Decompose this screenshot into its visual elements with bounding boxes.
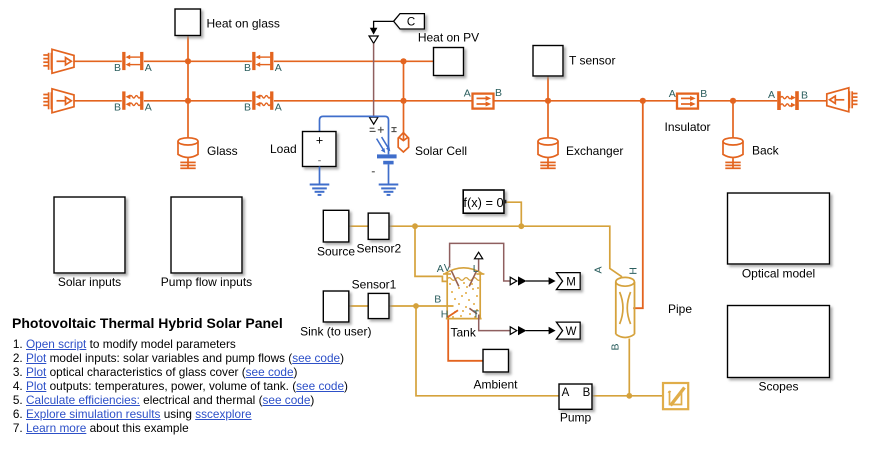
svg-text:T sensor: T sensor <box>569 54 615 68</box>
block Load <box>303 132 337 167</box>
svg-text:Heat on PV: Heat on PV <box>418 31 479 45</box>
svg-text:Pump: Pump <box>560 411 592 425</box>
physical signal wire converter to solar cell <box>373 43 375 116</box>
wire row2 source to radiation1 <box>74 100 122 102</box>
block Sensor1 <box>368 293 389 318</box>
signal wire to W tag <box>526 330 550 332</box>
junction row2 glass <box>185 98 191 104</box>
wire electrical top (solar cell to load) <box>320 116 389 154</box>
svg-text:B: B <box>434 294 441 306</box>
wire junction down to Pump A <box>416 306 559 396</box>
tank rim ticks <box>443 273 451 275</box>
svg-text:L: L <box>473 263 479 275</box>
block Heat on glass <box>175 9 201 36</box>
svg-text:H: H <box>628 267 640 275</box>
data logger block <box>663 383 688 409</box>
physical signal wire tank V to M converter <box>450 243 510 281</box>
wire pipe B down to junction <box>628 339 630 396</box>
svg-text:+: + <box>316 134 323 148</box>
svg-text:Exchanger: Exchanger <box>566 144 623 158</box>
junction row2 back <box>730 98 736 104</box>
tank particles <box>449 282 479 318</box>
svg-text:H: H <box>441 309 449 321</box>
block f(x)=0 solver <box>463 190 504 213</box>
wire Heat on glass vertical to Glass <box>187 36 189 138</box>
conduction block K2 row1 right <box>252 52 273 70</box>
svg-text:M: M <box>566 276 576 288</box>
block Heat on PV <box>434 48 464 76</box>
subsystem Optical model <box>728 193 830 264</box>
conduction block K1 row1 left <box>122 52 143 70</box>
block Sink (to user) <box>323 291 349 322</box>
thermal mass Exchanger <box>538 138 558 169</box>
thermal mass Glass <box>178 138 198 169</box>
svg-text:Tank: Tank <box>451 326 477 340</box>
block Sensor2 <box>368 213 389 239</box>
svg-text:A: A <box>275 62 282 74</box>
block Source <box>323 210 349 242</box>
subsystem Solar inputs <box>54 197 125 273</box>
junction yellow bus fx0 <box>518 223 524 229</box>
junction yellow bus tank A <box>412 223 418 229</box>
junction row2 solarcell <box>400 98 406 104</box>
wire bus to Pipe H port <box>633 101 643 308</box>
wire bus junction down to tank A <box>415 226 447 281</box>
wire Source to Sensor2 <box>349 225 368 227</box>
arrowhead into converter <box>370 28 378 35</box>
model description text <box>12 312 372 435</box>
svg-text:A: A <box>145 62 152 74</box>
solar cell port glyphs <box>370 127 397 172</box>
wire Sensor2 to pipe A (main yellow bus) <box>389 226 622 277</box>
svg-text:W: W <box>566 326 577 338</box>
junction row2 exchanger <box>545 98 551 104</box>
svg-text:Sensor2: Sensor2 <box>356 242 401 256</box>
svg-text:Source: Source <box>317 245 355 259</box>
wire row2 radiation2 to convection <box>274 100 473 102</box>
junction row2 pipe <box>640 98 646 104</box>
svg-text:A: A <box>437 263 444 275</box>
junction row1 glass <box>185 58 191 64</box>
svg-text:B: B <box>244 62 251 74</box>
block T sensor <box>533 46 563 77</box>
svg-text:Insulator: Insulator <box>664 120 710 134</box>
svg-text:Load: Load <box>270 142 297 156</box>
solar cell thermal port <box>398 133 408 152</box>
svg-text:B: B <box>801 90 808 102</box>
tank funnel <box>451 271 458 287</box>
svg-text:A: A <box>145 102 152 114</box>
heat source S3 (right, mirrored) <box>827 88 858 112</box>
svg-text:f(x) = 0: f(x) = 0 <box>463 195 503 210</box>
block Pump <box>559 384 592 409</box>
svg-text:Back: Back <box>752 144 780 158</box>
wire row1 source to conduction1 <box>74 60 122 62</box>
signal wire to M tag <box>526 280 550 282</box>
Simulink-PS converter input triangle <box>369 36 378 43</box>
thermal mass Back <box>723 138 743 169</box>
tank water line <box>447 278 481 281</box>
svg-text:Solar inputs: Solar inputs <box>58 275 121 289</box>
svg-text:Scopes: Scopes <box>758 380 798 394</box>
svg-text:Glass: Glass <box>207 144 238 158</box>
wire Pump B to logger <box>592 395 663 397</box>
svg-text:Optical model: Optical model <box>742 267 815 281</box>
electrical reference ground (solar cell) <box>379 185 399 195</box>
svg-text:B: B <box>244 102 251 114</box>
block Ambient <box>483 349 509 372</box>
svg-text:Heat on glass: Heat on glass <box>207 17 280 31</box>
tank T1 icon <box>443 252 484 318</box>
signal wire From C to converter <box>374 21 394 28</box>
heat source S2 (second row left) <box>43 89 74 113</box>
wire row1 conduction2 to Heat on PV <box>274 60 434 62</box>
tank L unconnected port triangle <box>475 252 483 259</box>
wire load to ground <box>319 167 321 185</box>
PS-Simulink converter W <box>510 327 517 335</box>
wire Sink to Sensor1 <box>349 305 368 307</box>
wire row2 radiation1 to radiation2 <box>144 100 252 102</box>
radiation block R2 row2 right <box>252 91 273 109</box>
wire Tank H to Ambient <box>448 316 483 361</box>
convection block U1 (A to B) <box>473 94 494 109</box>
solar cell Q1 icon <box>377 137 397 184</box>
svg-text:C: C <box>407 17 415 29</box>
tank L stub <box>478 259 480 271</box>
wire solar cell thermal vertical <box>403 61 405 133</box>
svg-text:A: A <box>275 102 282 114</box>
svg-text:A: A <box>593 266 605 273</box>
tank dome <box>445 268 483 274</box>
svg-text:Sensor1: Sensor1 <box>352 278 397 292</box>
subsystem Pump flow inputs <box>171 197 242 273</box>
subsystem Scopes <box>728 306 830 378</box>
svg-text:Solar Cell: Solar Cell <box>415 144 467 158</box>
svg-text:A: A <box>768 89 775 101</box>
svg-text:A: A <box>464 88 471 100</box>
junction sensor1 pump <box>413 303 419 309</box>
svg-text:A: A <box>562 387 570 399</box>
insulator block (A to B) <box>677 94 698 109</box>
wire row1 conduction1 to conduction2 <box>144 60 252 62</box>
svg-text:Pump flow inputs: Pump flow inputs <box>161 275 252 289</box>
svg-text:B: B <box>114 102 121 114</box>
Goto tag M <box>556 273 580 290</box>
svg-text:B: B <box>114 62 121 74</box>
pipe P1 icon <box>616 277 635 337</box>
radiation block R3 right side (arrows point right) <box>777 91 799 110</box>
svg-text:B: B <box>495 87 502 99</box>
wire row2 radiation3 to right source <box>799 100 827 102</box>
svg-text:B: B <box>610 343 622 350</box>
junction row1 solarcell <box>400 58 406 64</box>
wire T sensor to Exchanger vertical <box>547 76 549 138</box>
tank walls <box>446 272 448 319</box>
svg-text:A: A <box>669 88 676 100</box>
wire row2 insulator to radiation3 <box>698 100 777 102</box>
From tag C <box>394 14 425 29</box>
heat source S1 (top left) <box>43 49 74 73</box>
wire f(x)=0 to bus <box>504 202 521 226</box>
wire bus to Back vertical <box>732 101 734 138</box>
svg-text:Pipe: Pipe <box>668 302 692 316</box>
Goto tag W <box>556 322 580 339</box>
solar cell Ir input triangle <box>369 117 378 124</box>
electrical reference ground (load) <box>310 185 330 195</box>
junction pump pipe logger <box>626 393 632 399</box>
tank T port tick <box>469 308 477 314</box>
wire row2 convection to insulator <box>494 100 678 102</box>
physical signal wire tank T to W converter <box>479 315 510 331</box>
svg-text:Ambient: Ambient <box>473 378 518 392</box>
svg-text:B: B <box>700 88 707 100</box>
wire Sensor1 to tank B <box>389 305 454 307</box>
tank H port tick <box>447 310 458 317</box>
tank bottom <box>446 318 482 320</box>
PS-Simulink converter M <box>510 277 517 285</box>
radiation block R1 row2 left <box>122 91 143 109</box>
svg-text:B: B <box>583 387 591 399</box>
